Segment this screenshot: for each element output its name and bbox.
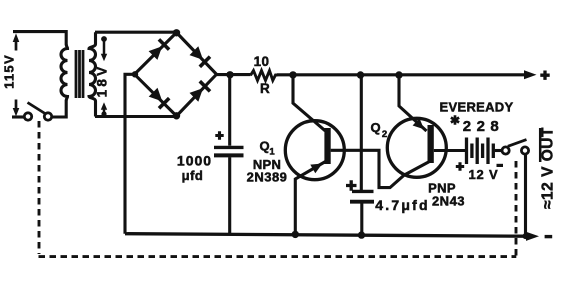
node: filter capacitor junction	[226, 71, 233, 78]
node: bridge left	[132, 71, 138, 77]
wire: primary bottom lead	[52, 101, 66, 118]
svg-text:4.7μfd: 4.7μfd	[375, 197, 429, 213]
capacitor C1 1000 ufd lead top	[228, 75, 231, 146]
svg-text:228: 228	[463, 118, 505, 135]
svg-text:1000: 1000	[177, 153, 212, 169]
svg-text:Q: Q	[370, 120, 380, 135]
svg-text:2: 2	[382, 129, 387, 140]
dashed linkage: left switch gang	[38, 121, 41, 254]
label: C1 plus sign	[215, 131, 223, 139]
bridge rectifier diamond frame	[135, 33, 217, 117]
arrow: positive output terminal	[524, 70, 537, 79]
diode D4 bridge bottom-right	[190, 81, 211, 102]
dashed linkage: bottom run	[39, 255, 517, 258]
transistor Q1 base bar	[324, 128, 330, 164]
wire: battery to output switch	[495, 149, 502, 152]
transistor Q1 circle	[285, 121, 344, 180]
svg-text:μfd: μfd	[182, 168, 204, 183]
wire: Q1 collector	[293, 75, 325, 131]
svg-text:≈12 V OUT: ≈12 V OUT	[540, 127, 557, 209]
label: minus output	[545, 235, 553, 238]
node: bridge top	[173, 29, 180, 36]
wire: positive rail resistor to output	[277, 73, 525, 76]
label: 115V source with dimension arrows	[15, 40, 18, 110]
svg-text:12 V: 12 V	[469, 167, 499, 182]
diode D2 bridge top-right	[190, 46, 211, 67]
wire: Q1 emitter diagonal	[295, 162, 325, 235]
wire: Q2 base to battery	[434, 149, 466, 152]
arrow: Q2 emitter	[413, 118, 425, 129]
label: 18V with dimension arrows	[101, 36, 107, 42]
wire: 115V source bottom	[12, 115, 24, 118]
wire: 115V loop top	[13, 32, 66, 45]
wire: negative bottom rail	[125, 234, 526, 237]
node: bridge bottom	[173, 112, 180, 119]
resistor R 10 ohm	[251, 71, 278, 81]
wire: secondary bottom to bridge bottom node	[95, 115, 177, 118]
switch S2 output switch	[502, 140, 529, 154]
svg-text:EVEREADY: EVEREADY	[440, 100, 514, 115]
node: Q1 emitter rail junction	[292, 231, 299, 238]
dashed linkage: right switch gang	[515, 158, 518, 256]
diode D1 bridge top-left	[149, 39, 170, 60]
node: Q2 emitter junction on positive rail	[395, 71, 402, 78]
wire: switch S2 down to negative rail	[524, 154, 527, 236]
svg-text:18V: 18V	[95, 64, 110, 98]
svg-text:10: 10	[254, 54, 270, 69]
svg-text:2N389: 2N389	[247, 170, 288, 185]
transformer T1 primary winding	[61, 44, 67, 101]
wire: secondary top to bridge top node	[95, 31, 177, 34]
transistor Q2 base bar	[428, 125, 434, 163]
svg-text:Q: Q	[259, 139, 269, 154]
transformer core	[76, 50, 83, 98]
diode D3 bridge bottom-left	[149, 88, 170, 109]
transistor Q2 circle	[387, 118, 446, 177]
svg-text:R: R	[260, 81, 270, 96]
label: number 228	[451, 115, 459, 125]
wire: Q2 emitter	[399, 75, 427, 131]
node: C2 branch junction on positive rail	[357, 71, 364, 78]
capacitor C1 lead bottom	[228, 157, 231, 234]
node: C2 rail junction	[358, 231, 365, 238]
wire: C2 branch vertical	[360, 75, 363, 190]
svg-text:2N43: 2N43	[432, 194, 465, 209]
label: battery plus	[456, 162, 464, 170]
label: C2 plus sign	[346, 180, 357, 190]
svg-text:1: 1	[269, 147, 275, 158]
wire: Q1 base to Q2 collector	[331, 150, 429, 187]
capacitor C1 plates	[214, 146, 244, 149]
switch S1 line switch	[24, 103, 51, 121]
svg-text:115V: 115V	[2, 54, 17, 89]
node: rail end junction	[523, 233, 529, 239]
arrow: negative output terminal	[526, 232, 539, 241]
label: plus output	[540, 71, 549, 80]
battery B1 plates	[467, 138, 494, 165]
arrow: Q1 emitter	[310, 164, 322, 174]
node: Q1 collector junction	[289, 71, 296, 78]
capacitor C2 lead bottom	[360, 203, 363, 235]
wire: positive rail bridge to resistor	[217, 73, 251, 76]
capacitor C2 4.7 ufd plates	[352, 190, 374, 193]
label: battery minus	[497, 164, 504, 167]
wire: bridge left node down to negative rail	[125, 74, 135, 233]
transformer T1 secondary winding	[89, 32, 96, 116]
